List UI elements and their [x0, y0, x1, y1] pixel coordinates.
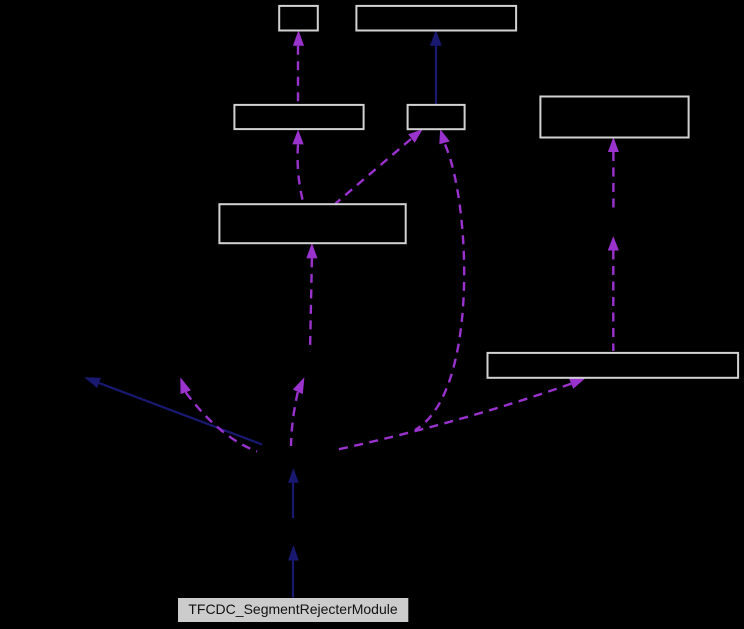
wire: collaboration edge hidden node C to B4 (long purple dashed curve)	[415, 129, 464, 430]
node box B4 (second row middle)	[408, 105, 465, 129]
wire: collaboration edge hidden node C to hidden node F (purple dashed curve)	[180, 377, 257, 451]
node box B2 (top wide)	[356, 6, 516, 31]
wire: collaboration edge B6 to B3 (purple dashed, slight curve)	[292, 130, 303, 204]
node box B6 (third row, two-line)	[219, 204, 405, 243]
wire: inheritance edge B4 to B2 (blue solid)	[430, 30, 442, 104]
wire: inheritance edge bottom box to hidden node B (blue solid)	[288, 545, 299, 598]
wire: collaboration edge B6 to B4 (purple dashed diagonal)	[336, 129, 423, 203]
wire: collaboration edge hidden node C to B7 (purple dashed, long shallow curve)	[333, 378, 586, 451]
wire: collaboration edge hidden node C to hidden node D (purple dashed)	[291, 377, 304, 446]
wire: collaboration edge B3 to B1 (purple dashed vertical)	[293, 30, 304, 103]
wire: collaboration edge B7 to hidden node G (purple dashed vertical)	[608, 236, 619, 351]
node TFCDC_SegmentRejecterModule (main node, gray filled)	[178, 598, 408, 622]
svg-text:TFCDC_SegmentRejecterModule: TFCDC_SegmentRejecterModule	[188, 601, 398, 617]
wire: inheritance edge hidden node B to hidden node C (blue solid)	[288, 468, 299, 518]
node box B1 (top small)	[279, 6, 318, 31]
wire: inheritance edge hidden node C to hidden node E (blue diagonal)	[84, 377, 262, 444]
node box B5 (second row right, two-line)	[540, 97, 688, 138]
wire: collaboration edge hidden node D to B6 (purple dashed vertical)	[306, 243, 317, 352]
wire: collaboration edge hidden node G to B5 (purple dashed vertical)	[608, 137, 619, 208]
node box B3 (second row left)	[234, 105, 363, 129]
node box B7 (fourth row wide)	[488, 353, 739, 378]
